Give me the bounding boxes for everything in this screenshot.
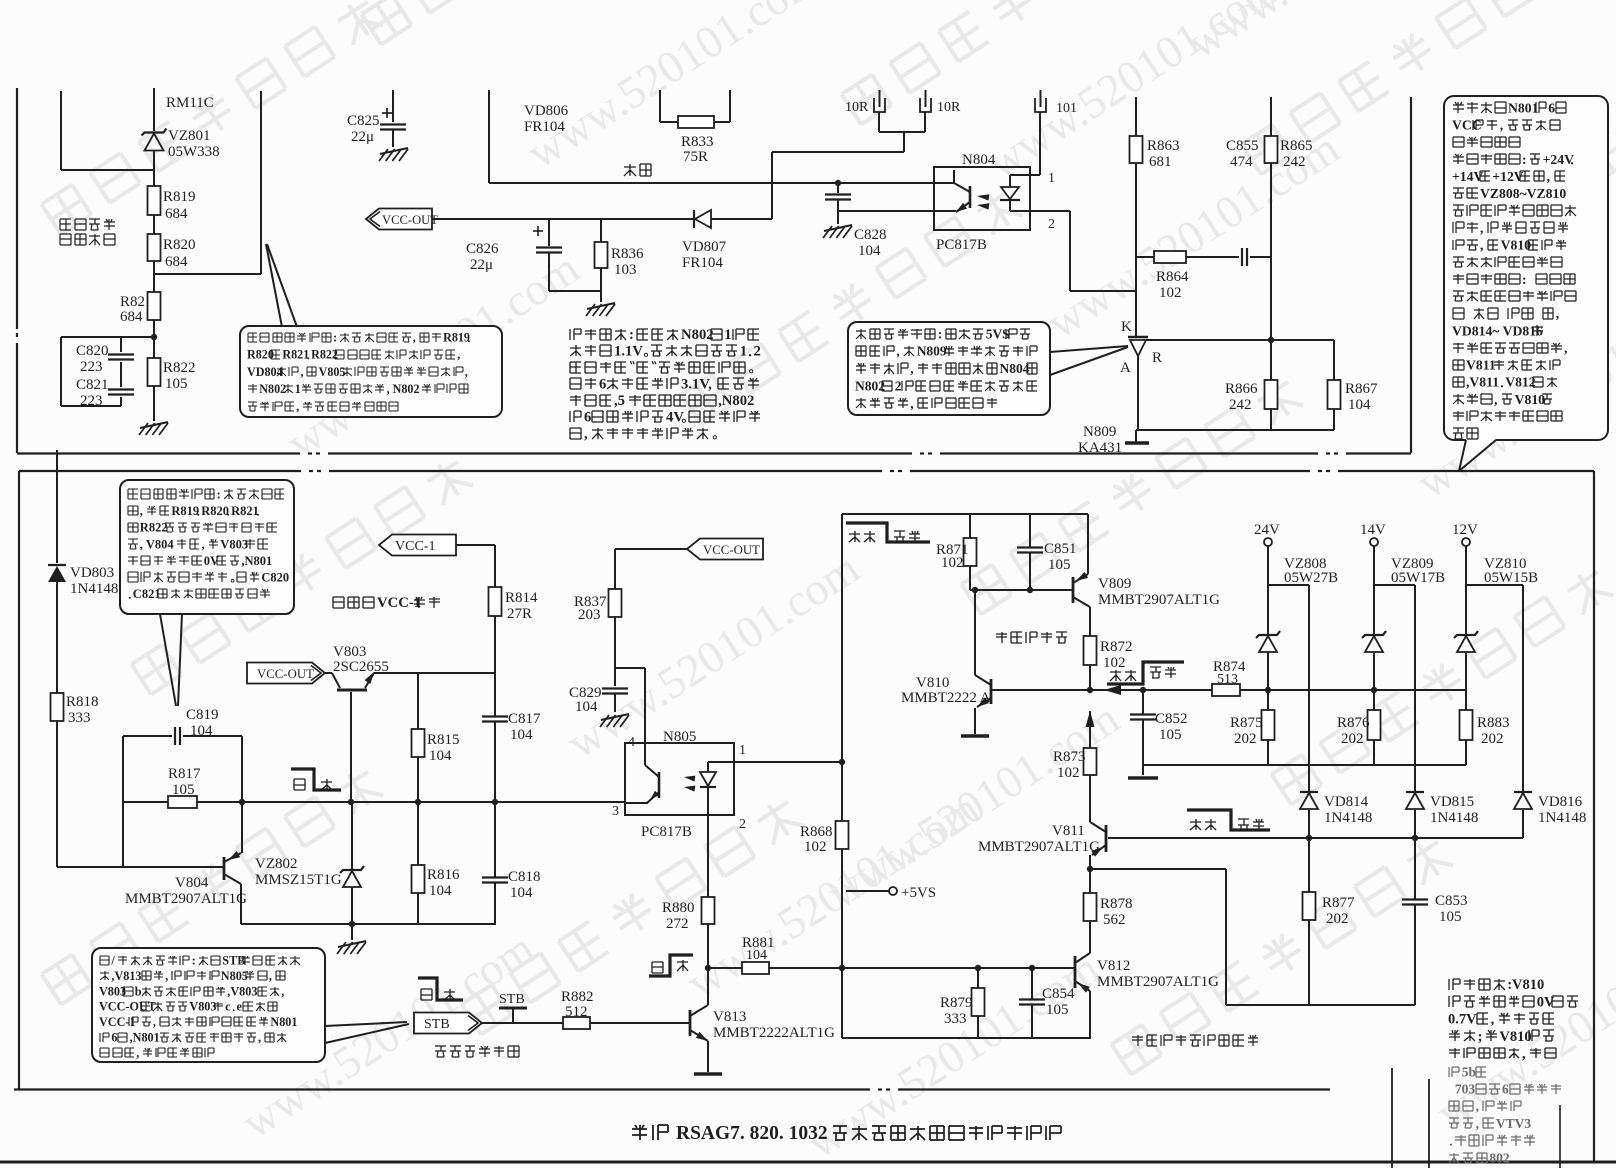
svg-text::: : — [1522, 272, 1527, 287]
svg-text:101: 101 — [1056, 101, 1077, 116]
svg-text:+12V: +12V — [1492, 169, 1523, 184]
svg-text:202: 202 — [1234, 731, 1257, 747]
svg-text:104: 104 — [510, 885, 533, 901]
wire VCC-OUT to VD807 — [432, 218, 694, 220]
zener VZ801 — [145, 134, 164, 151]
svg-text:R875: R875 — [1230, 715, 1263, 731]
svg-text:802: 802 — [1489, 1150, 1510, 1165]
svg-text:202: 202 — [1341, 731, 1364, 747]
svg-text:104: 104 — [1348, 397, 1371, 413]
wire hanging x261 — [260, 91, 262, 274]
flag VCC-OUT top — [366, 209, 432, 230]
svg-text::: : — [333, 331, 337, 345]
wire to N805 pin4 — [615, 667, 645, 669]
note text 维修提示 bottom-right — [1449, 979, 1460, 990]
svg-text:R865: R865 — [1280, 138, 1313, 154]
svg-text:103: 103 — [614, 262, 637, 278]
svg-text:104: 104 — [510, 727, 533, 743]
svg-text:e: e — [237, 1000, 243, 1014]
wire 14V branch — [1374, 584, 1415, 586]
wire C826 bottom to R836 — [549, 290, 601, 292]
callout 市电欠电压保护 bottom text — [128, 489, 138, 499]
svg-text:VD816: VD816 — [1538, 794, 1583, 810]
svg-text:,V811: ,V811 — [1466, 375, 1499, 390]
bottom section left border — [18, 471, 20, 1089]
svg-text:R816: R816 — [427, 867, 460, 883]
svg-text:,: , — [153, 1015, 156, 1029]
svg-text:512: 512 — [565, 1004, 588, 1020]
capacitor C826 — [548, 219, 550, 246]
svg-text:1: 1 — [740, 344, 747, 360]
svg-text:PC817B: PC817B — [936, 237, 987, 253]
capacitor C820 — [120, 337, 122, 352]
svg-text:STB: STB — [499, 992, 525, 1007]
svg-text:105: 105 — [1159, 727, 1182, 743]
svg-text:684: 684 — [165, 254, 188, 270]
wire bottom bus y924 — [241, 923, 496, 925]
transistor V804 — [57, 866, 223, 868]
svg-text:V803: V803 — [220, 537, 248, 551]
STB test point — [499, 1007, 527, 1010]
svg-text:N801: N801 — [1508, 100, 1539, 115]
callout 市电欠电压保护 top box — [240, 326, 502, 417]
svg-text:,: , — [1564, 340, 1567, 355]
svg-text:R815: R815 — [427, 732, 460, 748]
svg-text:,: , — [1476, 1116, 1479, 1131]
flag VCC-OUT bottom-left — [247, 663, 325, 684]
optocoupler N804 box — [934, 167, 1030, 230]
svg-text:MMBT2907ALT1G: MMBT2907ALT1G — [978, 839, 1100, 855]
wire bus 24V-14V-12V — [1268, 689, 1466, 691]
callout top pointer — [266, 244, 282, 327]
capacitor C828 — [825, 193, 851, 195]
wire horizontal y274 — [154, 273, 261, 275]
svg-text:104: 104 — [190, 723, 213, 739]
waveform 开关 near STB — [418, 978, 463, 1000]
resistor R876 — [1373, 690, 1375, 710]
svg-text:R822: R822 — [311, 348, 338, 362]
svg-text:VZ801: VZ801 — [168, 128, 211, 144]
wire VD807 to riser — [711, 218, 772, 220]
svg-text:R: R — [1152, 350, 1162, 366]
svg-text:N802: N802 — [259, 382, 286, 396]
top section left border — [16, 88, 18, 329]
svg-text:, V804: , V804 — [140, 537, 175, 551]
wire stabilizer box vertical x489 — [488, 90, 490, 183]
svg-text:333: 333 — [68, 710, 91, 726]
svg-text:RSAG7. 820. 1032: RSAG7. 820. 1032 — [676, 1123, 828, 1144]
N804 LED arrows — [977, 194, 989, 200]
svg-text:202: 202 — [1481, 731, 1504, 747]
wire V810 base to bus — [991, 689, 1090, 691]
svg-text:05W17B: 05W17B — [1391, 570, 1445, 586]
svg-text:R866: R866 — [1225, 381, 1258, 397]
svg-text:+5VS: +5VS — [901, 885, 936, 901]
svg-text:104: 104 — [429, 883, 452, 899]
svg-text::: : — [217, 488, 221, 502]
ground bar KA431 — [1135, 430, 1137, 442]
svg-text:242: 242 — [1229, 397, 1252, 413]
svg-text:V813: V813 — [713, 1009, 746, 1025]
svg-text:102: 102 — [804, 839, 827, 855]
transistor V811 — [1105, 825, 1108, 852]
svg-text:681: 681 — [1149, 154, 1172, 170]
svg-text:C852: C852 — [1155, 711, 1188, 727]
callout top-right text — [1453, 102, 1464, 113]
text 待机控制电路 — [435, 1046, 446, 1057]
svg-text:6: 6 — [1502, 1082, 1509, 1097]
svg-text:223: 223 — [80, 359, 103, 375]
svg-text:6: 6 — [111, 1031, 117, 1045]
transistor V809 — [1072, 577, 1075, 603]
svg-text:105: 105 — [1046, 1002, 1069, 1018]
callout bottom pointer to C819 — [160, 614, 176, 706]
wire R865 column — [1270, 97, 1272, 136]
resistor R882 — [563, 1017, 590, 1029]
wire C820 branch bottom — [61, 405, 121, 407]
svg-text:, N802: , N802 — [387, 382, 420, 396]
svg-text:22μ: 22μ — [351, 129, 374, 145]
svg-text:R876: R876 — [1337, 715, 1370, 731]
svg-text:684: 684 — [165, 206, 188, 222]
resistor R863 — [1130, 136, 1143, 163]
svg-text::: : — [938, 326, 943, 341]
wire R880 to junction — [707, 924, 709, 968]
svg-text:R879: R879 — [940, 995, 973, 1011]
svg-text:KA431: KA431 — [1078, 440, 1122, 456]
svg-text:V812: V812 — [1505, 375, 1536, 390]
callout top-right box — [1444, 96, 1608, 440]
component 101 connector — [1035, 98, 1046, 112]
capacitor C853 — [1414, 838, 1416, 899]
svg-text:10R: 10R — [937, 100, 961, 115]
transistor V812 — [1074, 956, 1077, 988]
svg-text:75R: 75R — [683, 149, 708, 165]
svg-text:104: 104 — [858, 243, 881, 259]
svg-text:R821: R821 — [282, 348, 309, 362]
svg-text:C855: C855 — [1226, 138, 1259, 154]
resistor R817 — [168, 796, 197, 808]
resistor R822 — [148, 358, 161, 386]
transistor V810 — [990, 679, 993, 704]
svg-text:R822: R822 — [140, 521, 168, 535]
page bottom rule — [0, 1161, 1616, 1164]
flag STB — [414, 1013, 482, 1034]
wire riser x772 — [771, 152, 773, 219]
svg-text:V810: V810 — [1515, 392, 1546, 407]
capacitor C829 — [602, 687, 628, 689]
shunt regulator N809 KA431 — [1128, 336, 1148, 338]
resistor R865 — [1265, 136, 1278, 163]
svg-text:1: 1 — [1048, 171, 1055, 186]
top section right border — [1410, 97, 1412, 453]
ground C829 — [601, 714, 629, 720]
svg-text:104: 104 — [746, 948, 767, 963]
svg-text:27R: 27R — [507, 606, 532, 622]
svg-text:R864: R864 — [1156, 269, 1189, 285]
wire C819 loop left vertical — [122, 736, 124, 867]
svg-text:102: 102 — [1057, 765, 1080, 781]
svg-text:203: 203 — [578, 607, 601, 623]
svg-text:V803: V803 — [189, 1000, 216, 1014]
svg-text:N804: N804 — [962, 152, 996, 168]
svg-text:3: 3 — [612, 804, 619, 819]
text 开关机VCC-1控制 — [333, 597, 344, 608]
capacitor C818 — [494, 802, 496, 877]
svg-text:VD815: VD815 — [1430, 794, 1474, 810]
svg-text:V811: V811 — [1052, 823, 1085, 839]
svg-text:05W338: 05W338 — [168, 144, 220, 160]
wire VD814-816 to bus y838 — [1308, 809, 1310, 838]
wire horizontal y152 — [772, 151, 904, 153]
svg-text:1N4148: 1N4148 — [1538, 810, 1586, 826]
wire RM11C loop horizontal — [61, 169, 154, 171]
svg-text:R814: R814 — [505, 590, 538, 606]
svg-text:R817: R817 — [168, 766, 201, 782]
svg-text::: : — [1522, 152, 1527, 167]
svg-text:+24V: +24V — [1543, 152, 1574, 167]
svg-text:,: , — [296, 399, 299, 413]
waveform 正常保护 top — [846, 523, 930, 542]
svg-text:R882: R882 — [561, 989, 594, 1005]
svg-text:VD804: VD804 — [247, 365, 283, 379]
capacitor C852 — [1142, 690, 1144, 714]
svg-text:V810: V810 — [1501, 238, 1532, 253]
wire C828 to N804 pin3 — [837, 200, 839, 211]
svg-text:1: 1 — [724, 327, 731, 343]
ground R836 — [587, 303, 615, 309]
svg-text:VCC-1: VCC-1 — [99, 1015, 136, 1029]
wire VCC-1 to R814 — [456, 544, 495, 546]
svg-text:1N4148: 1N4148 — [70, 581, 118, 597]
flag VCC-OUT mid — [687, 539, 763, 560]
svg-text:V803: V803 — [99, 984, 126, 998]
capacitor C821 — [108, 388, 134, 390]
svg-text:C819: C819 — [186, 707, 219, 723]
svg-text:,V813: ,V813 — [111, 969, 141, 983]
svg-text:,: , — [584, 426, 588, 442]
wire STB to R882 — [482, 1022, 563, 1024]
diode VD803 — [48, 566, 66, 582]
diode VD814 — [1300, 793, 1318, 809]
ground V813 — [694, 1072, 722, 1076]
svg-text:,: , — [140, 504, 143, 518]
text 模拟晶闸管保护电路 — [1132, 1035, 1143, 1046]
svg-text::: : — [192, 954, 196, 968]
wire C820 branch left vertical — [60, 337, 62, 406]
svg-text:22μ: 22μ — [470, 257, 493, 273]
svg-text:1: 1 — [739, 743, 746, 758]
svg-text:VTV3: VTV3 — [1496, 1116, 1532, 1131]
diode VD816 — [1514, 793, 1532, 809]
svg-text:R822: R822 — [163, 360, 196, 376]
wire V804 emitter up — [241, 802, 243, 853]
svg-text:R819: R819 — [163, 189, 196, 205]
svg-text:2: 2 — [754, 344, 761, 360]
N805 internal phototransistor — [658, 772, 661, 798]
svg-text:N804: N804 — [1000, 361, 1030, 376]
svg-text:VZ808~VZ810: VZ808~VZ810 — [1480, 186, 1566, 201]
svg-text:R883: R883 — [1477, 715, 1510, 731]
svg-text:C825: C825 — [347, 113, 380, 129]
wire 12V branch — [1466, 584, 1523, 586]
svg-text:R820: R820 — [247, 348, 274, 362]
svg-text:05W27B: 05W27B — [1284, 570, 1338, 586]
wire up-arrow R873 — [1086, 711, 1095, 727]
svg-text:RM11C: RM11C — [166, 95, 214, 111]
svg-text:FR104: FR104 — [524, 119, 565, 135]
resistor R878 — [1089, 869, 1091, 893]
callout 市电欠电压保护 bottom box — [120, 480, 294, 614]
wire C820 branch horizontal y337 — [61, 336, 154, 338]
svg-text:N802: N802 — [855, 379, 885, 394]
resistor R874 — [1212, 684, 1240, 696]
resistor R866 — [1270, 340, 1272, 380]
ground C828 — [837, 211, 839, 224]
resistor R867 — [1328, 380, 1341, 409]
resistor R881 row — [708, 967, 742, 969]
wire V811 base bus y838 — [1108, 837, 1523, 839]
callout 开关机控制电路 text — [100, 956, 109, 965]
junction dots on bus — [348, 799, 354, 805]
waveform 正常保护 bottom — [1187, 810, 1270, 830]
svg-text:R820: R820 — [163, 237, 196, 253]
transistor V813 — [689, 1010, 692, 1036]
resistor R819 — [148, 186, 161, 215]
svg-text:R877: R877 — [1322, 895, 1355, 911]
svg-text:,: , — [1494, 392, 1497, 407]
wire top-left hanging — [60, 91, 62, 170]
svg-text:,: , — [281, 984, 284, 998]
svg-text:MMBT2907ALT1G: MMBT2907ALT1G — [125, 891, 247, 907]
svg-text:,: , — [301, 365, 304, 379]
svg-text:,: , — [910, 361, 913, 376]
bottom section bottom border — [14, 1088, 870, 1090]
svg-text:VD814~ VD816: VD814~ VD816 — [1452, 323, 1543, 338]
svg-text:VCC-OUT: VCC-OUT — [382, 213, 438, 227]
svg-text:,: , — [1491, 1012, 1495, 1028]
svg-text:3.1V,: 3.1V, — [681, 377, 712, 393]
svg-text:VCC-OUT: VCC-OUT — [257, 667, 314, 681]
svg-text:223: 223 — [80, 393, 103, 409]
svg-text:V810: V810 — [1499, 1029, 1531, 1045]
optocoupler N805 box — [625, 743, 734, 815]
N804 internal phototransistor — [969, 186, 972, 208]
zener VZ808 — [1267, 585, 1269, 634]
svg-text:VCC-1: VCC-1 — [377, 595, 421, 611]
svg-text:R819: R819 — [171, 504, 199, 518]
svg-text:,: , — [136, 1046, 139, 1060]
wire R864 row y257 — [1136, 256, 1154, 258]
callout top-right tail — [1459, 439, 1496, 471]
svg-text:513: 513 — [1217, 672, 1238, 687]
wire VD803 to R818 — [56, 582, 58, 693]
thyristor box top edge y514 — [842, 513, 1088, 515]
waveform 开关 switch near V803 — [291, 769, 341, 790]
svg-text:104: 104 — [429, 748, 452, 764]
svg-text:N809: N809 — [1083, 424, 1116, 440]
svg-text:,N802: ,N802 — [718, 393, 754, 409]
zener VZ802 — [351, 802, 353, 869]
wire VD803 column top — [56, 450, 58, 563]
svg-text:5b: 5b — [1462, 1064, 1476, 1079]
wire RM11C main vertical upper — [153, 88, 155, 131]
bottom section top border — [19, 470, 301, 472]
wire V812 base row y968 — [842, 967, 1075, 969]
svg-text:C817: C817 — [508, 711, 541, 727]
svg-text:,: , — [910, 396, 913, 411]
svg-text:202: 202 — [1326, 911, 1349, 927]
svg-text:V803: V803 — [333, 644, 366, 660]
svg-text:242: 242 — [1283, 154, 1306, 170]
svg-text:b: b — [135, 984, 142, 998]
svg-text:1N4148: 1N4148 — [1430, 810, 1478, 826]
callout 稳压控制电路 box — [848, 322, 1050, 415]
resistor R875 — [1267, 690, 1269, 710]
svg-text:N805: N805 — [663, 729, 696, 745]
svg-text:R836: R836 — [611, 246, 644, 262]
svg-text:,: , — [1547, 169, 1550, 184]
svg-text:VZ802: VZ802 — [255, 856, 298, 872]
svg-text:10R: 10R — [845, 100, 869, 115]
waveform 正常保护 mid — [1107, 662, 1184, 684]
wire R837 to C829 — [614, 617, 616, 686]
resistor R883 — [1465, 690, 1467, 710]
svg-text:C820: C820 — [261, 571, 289, 585]
svg-text:,: , — [457, 348, 460, 362]
svg-text:c: c — [225, 1000, 231, 1014]
svg-text:,: , — [465, 365, 468, 379]
svg-text:272: 272 — [666, 916, 689, 932]
svg-text:MMSZ15T1G: MMSZ15T1G — [255, 872, 342, 888]
svg-text:+14V: +14V — [1452, 169, 1483, 184]
zener VZ809 — [1373, 585, 1375, 634]
resistor R815 — [417, 673, 419, 729]
svg-text:VCC-1: VCC-1 — [395, 539, 435, 554]
svg-text:,: , — [1480, 238, 1483, 253]
svg-text:,: , — [896, 344, 899, 359]
resistor R814 — [489, 587, 502, 616]
capacitor C817 — [494, 673, 496, 716]
svg-text:1N4148: 1N4148 — [1324, 810, 1372, 826]
wire R874 to 24V line — [1240, 689, 1268, 691]
svg-text:V811: V811 — [1466, 358, 1496, 373]
wire 10R drop — [903, 132, 905, 152]
svg-text:,V803: ,V803 — [227, 984, 257, 998]
svg-text:K: K — [1121, 319, 1132, 335]
capacitor C819 row — [123, 735, 172, 737]
resistor R868 — [836, 821, 849, 849]
svg-text:24V: 24V — [1254, 522, 1280, 538]
svg-text:C854: C854 — [1042, 986, 1075, 1002]
svg-text:562: 562 — [1103, 912, 1126, 928]
svg-text:2: 2 — [739, 817, 746, 832]
resistor R816 — [417, 802, 419, 865]
text 模拟晶闸管 — [996, 632, 1007, 643]
svg-text:MMBT2222ALT1G: MMBT2222ALT1G — [713, 1025, 835, 1041]
svg-text:05W15B: 05W15B — [1484, 570, 1538, 586]
svg-text:N805: N805 — [221, 969, 248, 983]
svg-text:,: , — [258, 1031, 261, 1045]
resistor R864 — [1154, 251, 1186, 263]
svg-text:MMBT2222 A: MMBT2222 A — [901, 690, 991, 706]
ground C852 — [1128, 776, 1158, 780]
svg-text:R878: R878 — [1100, 896, 1133, 912]
svg-text:N802: N802 — [681, 327, 714, 343]
wire V803 base down — [350, 692, 352, 802]
svg-text:105: 105 — [165, 376, 188, 392]
svg-text:,: , — [269, 969, 272, 983]
